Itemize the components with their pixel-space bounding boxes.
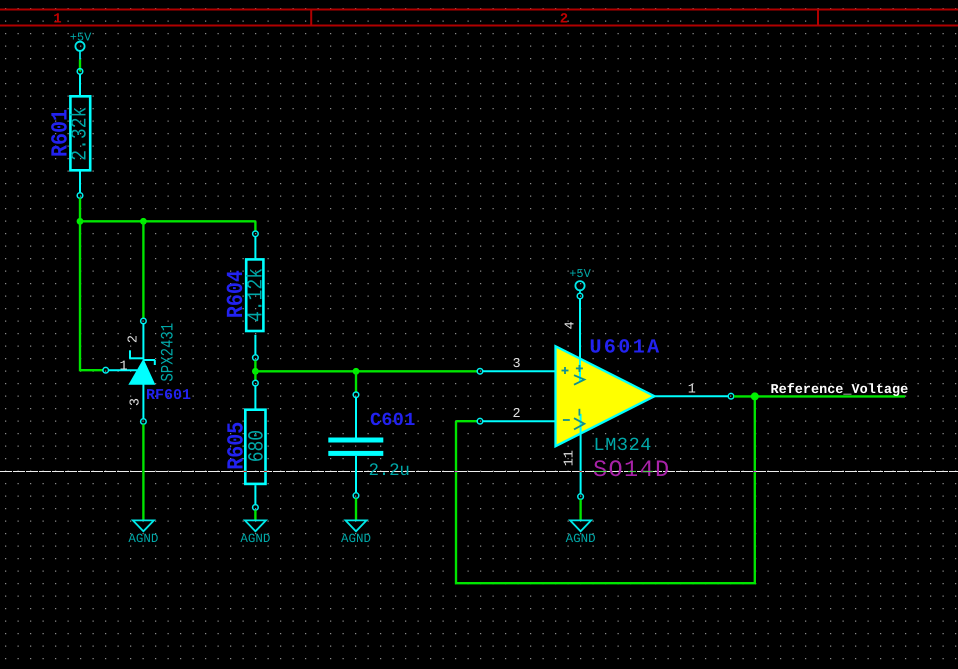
pin end circle U601A pin3: [477, 369, 483, 375]
svg-text:4.12k: 4.12k: [245, 268, 269, 322]
pin end circle R605 bottom: [253, 505, 259, 511]
label RF601: [146, 387, 191, 404]
label R604: [224, 270, 250, 318]
wire R605 to ground: [254, 510, 256, 520]
wire horizontal top bus: [80, 220, 255, 222]
net label Reference_Voltage: [771, 383, 909, 398]
shunt regulator RF601 SPX2431: [109, 324, 156, 419]
svg-text:SO14D: SO14D: [593, 457, 671, 484]
pin end circle R601 pin1: [77, 69, 83, 75]
pin end circle R604 top: [253, 231, 259, 237]
svg-text:3: 3: [513, 357, 521, 372]
wire junction D to C601: [355, 371, 357, 392]
svg-text:AGND: AGND: [128, 532, 158, 546]
pin end circle U601A pin1: [728, 393, 734, 399]
pin number 1 (SPX): [119, 359, 127, 374]
value 2.2u: [369, 461, 410, 481]
wire feedback loop: [456, 396, 755, 583]
svg-text:U601A: U601A: [590, 337, 662, 360]
junction C: [252, 368, 259, 375]
svg-text:AGND: AGND: [341, 532, 371, 546]
pin end circle R601 pin2: [77, 193, 83, 199]
svg-text:1: 1: [119, 359, 127, 374]
svg-text:AGND: AGND: [566, 532, 596, 546]
pin U601A 1 output: [655, 383, 729, 398]
ground AGND (under SPX): [128, 520, 158, 546]
wire to R604 top: [254, 221, 256, 231]
svg-text:1: 1: [688, 383, 696, 398]
pin end circle U601A pin11: [578, 494, 584, 500]
svg-text:SPX2431: SPX2431: [159, 323, 179, 382]
pin end circle SPX pin1: [103, 367, 109, 373]
pin end circle U601A pin4: [577, 293, 583, 299]
pin number 3 (SPX): [129, 398, 144, 406]
svg-text:2: 2: [127, 335, 142, 343]
label R605: [224, 422, 250, 470]
pin end circle U601A pin2: [477, 418, 483, 424]
svg-text:LM324: LM324: [594, 435, 653, 456]
pin end circle SPX pin2: [141, 318, 147, 324]
junction D: [353, 368, 360, 375]
junction B: [140, 218, 147, 225]
wire junction B down to SPX pin 2: [142, 221, 144, 318]
svg-text:Reference_Voltage: Reference_Voltage: [771, 383, 909, 398]
pin end circle C601 bottom: [353, 493, 359, 499]
svg-text:AGND: AGND: [240, 532, 270, 546]
ground AGND (under op-amp): [566, 520, 596, 546]
footprint SO14D: [593, 457, 671, 484]
wire junction C to R605: [254, 371, 256, 380]
wire junction A down to SPX pin 1: [80, 221, 103, 370]
resistor R605: [245, 386, 265, 505]
svg-text:2: 2: [513, 407, 521, 422]
wire main node to op-amp pin3: [255, 370, 477, 372]
op-amp U601A: [556, 299, 655, 494]
border column number 2: [560, 12, 568, 28]
svg-text:RF601: RF601: [146, 387, 191, 404]
svg-text:4: 4: [563, 321, 578, 329]
xor tick marks on crosshair: [244, 471, 756, 473]
value LM324: [594, 435, 653, 456]
wire feedback to pin2: [456, 420, 477, 422]
label R601: [48, 109, 74, 157]
value SPX2431: [159, 323, 179, 382]
svg-text:2.32k: 2.32k: [69, 107, 93, 161]
pin end circle SPX pin3: [141, 419, 147, 425]
value 2.32k: [69, 107, 93, 161]
value 680: [246, 430, 270, 462]
junction A: [77, 218, 84, 225]
pin number 11: [562, 450, 577, 466]
label C601: [370, 410, 416, 431]
power symbol +5V (top left): [70, 30, 92, 59]
capacitor C601: [328, 398, 383, 493]
power symbol +5V (op-amp): [569, 267, 591, 293]
wire +5V to R601: [79, 60, 81, 72]
wire pin11 to ground: [579, 499, 581, 520]
svg-text:2: 2: [560, 12, 568, 28]
pin end circle R605 top: [253, 380, 259, 386]
svg-text:2.2u: 2.2u: [369, 461, 410, 481]
pin end circle C601 top: [353, 392, 359, 398]
svg-text:3: 3: [129, 398, 144, 406]
wire SPX pin3 to ground: [142, 424, 144, 520]
svg-text:+5V: +5V: [569, 267, 591, 281]
pin U601A 3: [483, 357, 556, 372]
pin number 4: [563, 321, 578, 329]
pin end circle R604 bottom: [253, 355, 259, 361]
ground AGND (under C601): [341, 520, 371, 546]
svg-text:C601: C601: [370, 410, 416, 431]
value 4.12k: [245, 268, 269, 322]
pin number 2 (SPX): [127, 335, 142, 343]
resistor R601: [70, 74, 90, 193]
ground AGND (under R605): [240, 520, 270, 546]
resistor R604: [246, 237, 263, 355]
svg-text:1: 1: [53, 12, 61, 28]
svg-text:680: 680: [246, 430, 270, 462]
wire R601 to junction: [79, 198, 81, 221]
pin U601A 2: [483, 407, 556, 422]
label U601A: [590, 337, 662, 360]
junction E: [751, 392, 759, 400]
svg-text:11: 11: [562, 450, 577, 466]
border column number 1: [53, 12, 61, 28]
sheet border top lines: [0, 10, 958, 26]
wire R604 bottom to junction C: [254, 360, 256, 371]
crosshair line y=471: [0, 471, 958, 473]
wire output to label: [734, 395, 905, 397]
wire C601 to ground: [355, 498, 357, 520]
